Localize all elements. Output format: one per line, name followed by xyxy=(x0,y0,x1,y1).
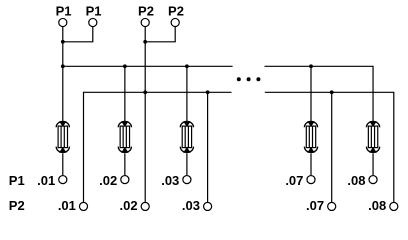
fuse F5: top clip contact arc xyxy=(366,121,379,127)
wire: P2 bus left segment with corner down to terminal .01 of P2 row xyxy=(84,92,232,202)
wire: fuse F1 to terminal .01 of P1 row xyxy=(62,153,64,175)
terminal circle .02 of P1 row xyxy=(121,176,129,184)
fuse F1: top clip contact arc xyxy=(56,121,69,127)
wire: P1 bus drop to fuse F2 xyxy=(124,66,126,121)
fuse F2: bottom clip contact arc xyxy=(118,147,131,153)
fuse F5: bottom clip contact arc xyxy=(366,147,379,153)
fuse F3: top clip contact arc xyxy=(180,121,193,127)
wire: fuse F3 to terminal .03 of P1 row xyxy=(186,153,188,175)
terminal circle .02 of P2 row xyxy=(141,202,149,210)
svg-text:.03: .03 xyxy=(182,198,200,213)
fuse F1: bottom clip contact arc xyxy=(56,147,69,153)
svg-text:P1: P1 xyxy=(9,173,25,188)
wire: P1 bus right segment with corner down to fuse F5 xyxy=(265,66,374,121)
svg-text:.01: .01 xyxy=(58,198,76,213)
fuse F4: top clip contact wedge xyxy=(307,121,315,127)
terminal circle P1 feed left xyxy=(59,18,67,26)
fuse F4: cartridge body xyxy=(306,126,315,148)
fuse F1: bottom clip contact wedge xyxy=(59,147,67,153)
junction: P2 bus / feed xyxy=(143,90,147,94)
wire: P2 feed right down and across to join xyxy=(145,27,175,42)
svg-text:.07: .07 xyxy=(306,198,324,213)
fuse F2: top clip contact wedge xyxy=(121,121,129,127)
fuse F3: cartridge body xyxy=(182,126,191,148)
junction: P1 bus / F2 xyxy=(123,64,127,68)
fuse F2: top clip contact arc xyxy=(118,121,131,127)
svg-text:.08: .08 xyxy=(368,198,386,213)
svg-text:.07: .07 xyxy=(285,173,303,188)
svg-text:.08: .08 xyxy=(347,173,365,188)
terminal circle .03 of P1 row xyxy=(183,176,191,184)
svg-text:P1: P1 xyxy=(86,3,102,18)
fuse F4: top clip contact arc xyxy=(304,121,317,127)
terminal circle .07 of P1 row xyxy=(307,176,315,184)
junction: P1 feed pair xyxy=(61,40,65,44)
wire: P2 feed left down to terminal .02 of P2 row xyxy=(144,27,146,202)
junction: P2 bus / .07 drop xyxy=(330,90,334,94)
wire: P2 bus right segment with corner down to terminal .08 of P2 row xyxy=(265,92,394,202)
fuse F1: cartridge body xyxy=(58,126,67,148)
fuse F5: cartridge body xyxy=(368,126,377,148)
terminal circle .01 of P2 row xyxy=(79,202,87,210)
fuse F2: fuse-link inner bars xyxy=(123,126,126,148)
fuse F5: top clip contact wedge xyxy=(369,121,377,127)
wire: fuse F2 to terminal .02 of P1 row xyxy=(124,153,126,175)
fuse F4: bottom clip contact wedge xyxy=(307,147,315,153)
svg-text:.03: .03 xyxy=(161,173,179,188)
junction: P2 feed pair xyxy=(143,40,147,44)
wire: P1 bus drop to fuse F4 xyxy=(310,66,312,121)
terminal circle .03 of P2 row xyxy=(204,202,212,210)
junction: P2 bus / .03 drop xyxy=(206,90,210,94)
wire: P2 bus drop to terminal .03 of P2 row xyxy=(207,92,209,202)
terminal circle P1 feed right xyxy=(89,18,97,26)
wire: P1 feed right down and across to join xyxy=(63,27,93,42)
svg-text:P2: P2 xyxy=(9,198,25,213)
svg-text:P2: P2 xyxy=(168,3,184,18)
fuse F1: fuse-link inner bars xyxy=(61,126,64,148)
terminal circle .08 of P1 row xyxy=(369,176,377,184)
wire: P2 bus drop to terminal .07 of P2 row xyxy=(331,92,333,202)
svg-text:P2: P2 xyxy=(138,3,154,18)
junction: P1 bus / F3 xyxy=(185,64,189,68)
fuse F1: top clip contact wedge xyxy=(59,121,67,127)
fuse F3: bottom clip contact arc xyxy=(180,147,193,153)
svg-text:.02: .02 xyxy=(120,198,138,213)
wire: P1 bus drop to fuse F3 xyxy=(186,66,188,121)
fuse F3: top clip contact wedge xyxy=(183,121,191,127)
wire: P1 feed left down to fuse F1 xyxy=(62,27,64,122)
svg-text:.02: .02 xyxy=(99,173,117,188)
terminal circle P2 feed right xyxy=(171,18,179,26)
wire: fuse F4 to terminal .07 of P1 row xyxy=(310,153,312,175)
fuse F3: bottom clip contact wedge xyxy=(183,147,191,153)
terminal circle .01 of P1 row xyxy=(59,176,67,184)
wire: P1 bus left segment xyxy=(63,65,233,67)
terminal circle .08 of P2 row xyxy=(390,202,398,210)
fuse F4: bottom clip contact arc xyxy=(304,147,317,153)
fuse F2: cartridge body xyxy=(120,126,129,148)
fuse F2: bottom clip contact wedge xyxy=(121,147,129,153)
junction: P1 bus / F1 xyxy=(61,64,65,68)
terminal circle P2 feed left xyxy=(141,18,149,26)
fuse F5: fuse-link inner bars xyxy=(371,126,374,148)
fuse F4: fuse-link inner bars xyxy=(309,126,312,148)
svg-text:.01: .01 xyxy=(37,173,55,188)
fuse F3: fuse-link inner bars xyxy=(185,126,188,148)
junction: P1 bus / F4 xyxy=(309,64,313,68)
terminal circle .07 of P2 row xyxy=(328,202,336,210)
wire: fuse F5 to terminal .08 of P1 row xyxy=(372,153,374,175)
continuation dots (channels .04-.06 omitted) xyxy=(237,77,261,81)
fuse F5: bottom clip contact wedge xyxy=(369,147,377,153)
svg-text:P1: P1 xyxy=(56,3,72,18)
